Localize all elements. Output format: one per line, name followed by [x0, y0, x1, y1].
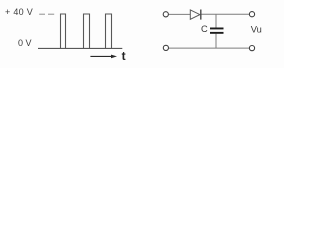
svg-text:t: t — [122, 49, 126, 63]
svg-text:0 V: 0 V — [18, 38, 32, 48]
svg-text:Vu: Vu — [251, 25, 262, 35]
svg-text:C: C — [201, 24, 208, 34]
svg-text:+ 40 V: + 40 V — [5, 7, 33, 17]
